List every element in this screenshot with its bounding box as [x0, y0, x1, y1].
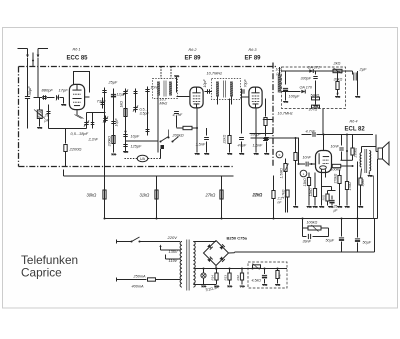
- svg-text:47pF: 47pF: [238, 144, 247, 148]
- svg-text:ECL 82: ECL 82: [345, 127, 366, 133]
- svg-text:30pF: 30pF: [27, 86, 32, 96]
- svg-text:170Ω: 170Ω: [348, 182, 352, 191]
- svg-text:880pF: 880pF: [42, 88, 54, 93]
- svg-text:Rö 1: Rö 1: [73, 48, 81, 52]
- svg-text:13kΩ: 13kΩ: [303, 178, 307, 187]
- svg-text:R13: R13: [224, 275, 228, 281]
- svg-text:10pF: 10pF: [131, 135, 140, 139]
- svg-text:16µF: 16µF: [115, 117, 119, 126]
- svg-text:39nF: 39nF: [303, 240, 312, 244]
- svg-text:R12: R12: [236, 275, 240, 281]
- svg-text:70pF: 70pF: [244, 79, 248, 88]
- svg-text:31kΩ: 31kΩ: [140, 193, 150, 198]
- svg-text:1,5MΩ: 1,5MΩ: [280, 168, 284, 179]
- svg-text:Caprice: Caprice: [21, 265, 62, 279]
- svg-text:4,5kΩ: 4,5kΩ: [252, 279, 262, 283]
- svg-text:330pF: 330pF: [301, 77, 312, 81]
- svg-text:OA 170: OA 170: [300, 86, 313, 90]
- svg-text:10pF: 10pF: [203, 79, 207, 88]
- svg-text:3,2Ω: 3,2Ω: [361, 179, 365, 187]
- svg-text:Rö 3: Rö 3: [249, 48, 258, 52]
- svg-text:EF 89: EF 89: [185, 56, 202, 62]
- svg-text:400mA: 400mA: [132, 285, 144, 289]
- svg-text:119V: 119V: [169, 259, 178, 263]
- svg-text:EF 89: EF 89: [245, 56, 262, 62]
- svg-text:22kΩ: 22kΩ: [223, 135, 227, 145]
- svg-text:107Ω: 107Ω: [309, 108, 318, 112]
- svg-text:1,5nF: 1,5nF: [253, 144, 263, 148]
- svg-text:27kΩ: 27kΩ: [205, 193, 216, 198]
- svg-text:Rö 2: Rö 2: [189, 48, 198, 52]
- svg-text:39kΩ: 39kΩ: [334, 78, 343, 82]
- svg-text:2kΩ: 2kΩ: [333, 62, 341, 66]
- svg-text:125pF: 125pF: [131, 145, 142, 149]
- svg-text:50µF: 50µF: [326, 239, 335, 243]
- svg-text:Rö 4: Rö 4: [350, 120, 358, 124]
- svg-text:2,2nF: 2,2nF: [88, 138, 99, 142]
- svg-text:UA: UA: [140, 157, 146, 161]
- svg-text:370kΩ: 370kΩ: [334, 173, 338, 183]
- svg-text:OA 172: OA 172: [308, 66, 320, 70]
- svg-text:R14: R14: [211, 275, 215, 281]
- svg-text:580Ω: 580Ω: [311, 94, 320, 98]
- svg-text:1,5nF: 1,5nF: [196, 143, 206, 147]
- svg-text:R17: R17: [278, 273, 282, 279]
- svg-text:ECC 85: ECC 85: [67, 56, 89, 62]
- svg-text:200kΩ: 200kΩ: [172, 134, 184, 138]
- svg-text:135V: 135V: [169, 250, 178, 254]
- svg-text:50Ω: 50Ω: [322, 194, 326, 200]
- svg-text:10,7MHz: 10,7MHz: [278, 112, 293, 116]
- svg-text:3,5pF: 3,5pF: [140, 112, 150, 116]
- svg-text:12kΩ: 12kΩ: [309, 188, 313, 197]
- svg-text:50µF: 50µF: [363, 241, 372, 245]
- svg-text:100µF: 100µF: [289, 95, 301, 99]
- svg-text:K: K: [279, 153, 281, 157]
- svg-text:4,7nF: 4,7nF: [173, 113, 183, 117]
- svg-text:25µF: 25µF: [108, 81, 118, 85]
- svg-text:b: b: [337, 92, 339, 96]
- svg-text:250mA: 250mA: [133, 275, 146, 279]
- svg-text:22kΩ: 22kΩ: [252, 193, 263, 198]
- svg-text:B250 C75a: B250 C75a: [227, 236, 248, 241]
- svg-text:0,5...38pF: 0,5...38pF: [71, 131, 89, 136]
- svg-text:330pF: 330pF: [251, 133, 262, 137]
- svg-text:1kΩ: 1kΩ: [120, 101, 124, 108]
- svg-text:2200Ω: 2200Ω: [69, 147, 82, 152]
- svg-text:17pF: 17pF: [59, 88, 69, 93]
- svg-text:10nF: 10nF: [331, 145, 340, 149]
- svg-text:330kΩ: 330kΩ: [108, 136, 112, 147]
- svg-text:2µF: 2µF: [359, 67, 368, 72]
- svg-text:MHz: MHz: [160, 102, 168, 106]
- svg-text:30kΩ: 30kΩ: [87, 193, 97, 198]
- svg-text:220V: 220V: [167, 235, 178, 240]
- svg-text:4,7nF: 4,7nF: [306, 130, 316, 134]
- svg-text:230kΩ: 230kΩ: [354, 147, 358, 158]
- svg-text:10nF: 10nF: [303, 156, 312, 160]
- svg-text:10,7MHz: 10,7MHz: [207, 71, 223, 76]
- svg-text:100kΩ: 100kΩ: [307, 221, 318, 225]
